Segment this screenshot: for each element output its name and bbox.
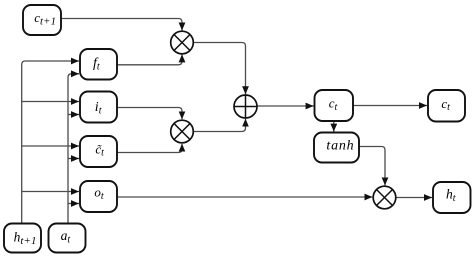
box h_{t+1} xyxy=(4,224,41,253)
wire multiplier X3 to h_t box xyxy=(396,197,432,199)
wire c_{t+1} to multiplier X1 top xyxy=(61,19,182,31)
box c_t (cell state) xyxy=(315,90,354,121)
wire tanh output to multiplier X3 top xyxy=(359,147,385,186)
wire c_t down to tanh xyxy=(333,121,335,132)
box c_t output (right) xyxy=(428,90,465,122)
multiplier X2 (element-wise product) xyxy=(171,120,194,143)
box c_{t+1} xyxy=(23,5,61,35)
box i_t (input gate) xyxy=(80,92,117,123)
multiplier X1 (element-wise product) xyxy=(171,31,194,54)
wire a-line branch to o_t lower input xyxy=(68,203,79,205)
wire adder to c_t box xyxy=(257,105,314,107)
box c~_t (candidate cell state) xyxy=(80,136,117,167)
box tanh xyxy=(314,133,359,163)
svg-text:tanh: tanh xyxy=(326,138,354,153)
wire i_t output to multiplier X2 top xyxy=(117,108,182,120)
wire h-line branch to c~_t upper input xyxy=(22,145,79,147)
adder (element-wise sum) xyxy=(234,95,257,118)
box f_t (forget gate) xyxy=(80,49,117,80)
wire h-line branch to o_t upper input xyxy=(22,191,79,193)
wire multiplier X2 to adder bottom xyxy=(193,119,245,132)
wire a-line branch to i_t lower input xyxy=(68,114,79,116)
wire a-line branch to c~_t lower input xyxy=(68,158,79,160)
wire c_t to right c_t box xyxy=(353,105,427,107)
wire h-line from h_{t+1} up to f_t upper input xyxy=(22,61,79,224)
box a_t xyxy=(49,224,86,253)
wire a-line from a_t up to f_t lower input xyxy=(68,74,79,224)
wire h-line branch to i_t upper input xyxy=(22,101,79,103)
multiplier X3 (element-wise product) xyxy=(373,186,396,209)
wire f_t output to multiplier X1 bottom xyxy=(117,54,182,64)
wire c~_t output to multiplier X2 bottom xyxy=(117,144,182,153)
box o_t (output gate) xyxy=(80,181,117,212)
wire o_t output to multiplier X3 left xyxy=(117,196,372,198)
box h_t (hidden state) xyxy=(433,182,471,213)
wire multiplier X1 to adder top xyxy=(193,43,245,95)
